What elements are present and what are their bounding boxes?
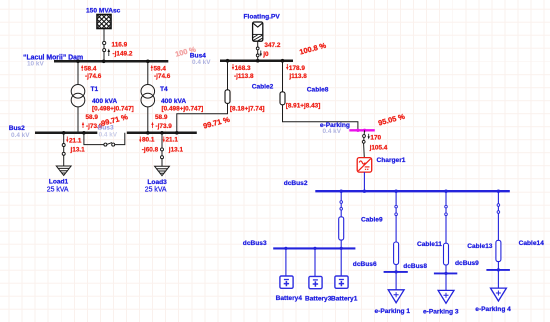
svg-text:T4: T4 bbox=[160, 86, 168, 93]
svg-text:Battery4: Battery4 bbox=[276, 295, 303, 302]
bus dcBus2 bbox=[284, 180, 510, 191]
cable Cable13 (feeder to dcBus9) bbox=[444, 191, 493, 273]
svg-text:-j149.2: -j149.2 bbox=[113, 50, 133, 57]
junction dots on dcBus2 bbox=[340, 190, 501, 193]
load e-Parking 4 bbox=[475, 270, 511, 313]
svg-text:116.9: 116.9 bbox=[112, 41, 128, 48]
junction dots on Bus3 bbox=[146, 131, 150, 135]
svg-text:10 kV: 10 kV bbox=[27, 61, 44, 68]
svg-text:dcBus6: dcBus6 bbox=[353, 261, 377, 268]
svg-text:dcBus3: dcBus3 bbox=[243, 240, 267, 247]
wire dam bus to T1 bbox=[77, 61, 79, 84]
bus "Lacul Morii" Dam bbox=[23, 54, 168, 67]
wire e-Parking bus to Charger1 bbox=[364, 130, 365, 157]
svg-text:25 kVA: 25 kVA bbox=[145, 187, 167, 194]
svg-text:347.2: 347.2 bbox=[264, 42, 280, 49]
junction dots on dcBus3 bbox=[284, 247, 343, 250]
wire T4 to Bus3 bbox=[147, 107, 149, 133]
wire grid to dam bus bbox=[103, 29, 105, 62]
svg-text:j13.1: j13.1 bbox=[70, 147, 86, 154]
value 178.9 j113.8 (Cable8) bbox=[286, 64, 307, 80]
value 170 j105.4 bbox=[368, 134, 388, 152]
external grid 150 MVAsc bbox=[86, 3, 121, 40]
svg-text:80.1: 80.1 bbox=[142, 137, 155, 144]
wire dam bus to T4 bbox=[147, 61, 149, 84]
svg-text:dcBus2: dcBus2 bbox=[284, 180, 308, 187]
switch circles on grid feeder bbox=[103, 41, 106, 44]
svg-text:Cable9: Cable9 bbox=[361, 217, 383, 224]
svg-text:[0.498+j0.747]: [0.498+j0.747] bbox=[162, 106, 204, 113]
wire Bus2 to Load1 bbox=[63, 133, 65, 166]
value 58.4 -j74.6 (T1 HV) bbox=[81, 65, 102, 80]
svg-text:58.4: 58.4 bbox=[84, 65, 97, 72]
svg-text:0.4 kV: 0.4 kV bbox=[99, 132, 118, 139]
switch circles Load3 feeder bbox=[161, 148, 164, 151]
cable Cable11 (feeder to dcBus8) bbox=[394, 191, 443, 272]
bus under Cable14 bbox=[486, 268, 510, 271]
svg-text:100.8 %: 100.8 % bbox=[298, 41, 327, 57]
value 347.2 j0 bbox=[260, 42, 281, 58]
bus dcBus3 bbox=[243, 240, 356, 248]
svg-text:Bus3: Bus3 bbox=[98, 125, 114, 132]
wire Charger1 to dcBus2 bbox=[363, 172, 365, 191]
svg-text:[0.498+j0.747]: [0.498+j0.747] bbox=[92, 106, 134, 113]
bus Bus3 bar bbox=[127, 132, 197, 135]
svg-text:58.9: 58.9 bbox=[86, 114, 99, 121]
cable Cable8 bbox=[280, 61, 358, 130]
svg-text:Battery3: Battery3 bbox=[305, 295, 332, 302]
load Load1 bbox=[47, 166, 71, 193]
bus dcBus8 bbox=[384, 263, 428, 274]
bus Bus4 bbox=[190, 53, 293, 66]
junction dots on dam bus bbox=[76, 60, 80, 64]
svg-text:168.3: 168.3 bbox=[235, 65, 251, 72]
svg-text:j113.8: j113.8 bbox=[288, 73, 307, 80]
svg-text:dcBus8: dcBus8 bbox=[403, 263, 427, 270]
svg-text:178.9: 178.9 bbox=[289, 65, 305, 72]
svg-text:e-Parking 3: e-Parking 3 bbox=[423, 309, 459, 316]
cable Cable2 bbox=[177, 61, 274, 133]
svg-text:Load3: Load3 bbox=[147, 179, 167, 186]
battery Battery4 bbox=[276, 248, 303, 301]
value 58.9 -j73.9 (T4 LV) bbox=[151, 114, 172, 130]
svg-text:[8.91+j8.43]: [8.91+j8.43] bbox=[286, 102, 321, 109]
junction dots on Bus4 bbox=[226, 59, 230, 63]
transformer T1 bbox=[71, 85, 134, 113]
value 168.3 -j113.8 (Cable2) bbox=[232, 64, 254, 80]
svg-text:170: 170 bbox=[370, 134, 381, 141]
svg-text:[8.18+j7.74]: [8.18+j7.74] bbox=[230, 106, 265, 113]
svg-text:99.71 %: 99.71 % bbox=[202, 115, 231, 131]
value 80.1 -j60.8 bbox=[139, 137, 158, 154]
svg-text:400 kVA: 400 kVA bbox=[92, 98, 117, 105]
load e-Parking 1 bbox=[375, 272, 411, 315]
svg-text:Cable11: Cable11 bbox=[417, 241, 442, 248]
svg-text:j105.4: j105.4 bbox=[369, 144, 388, 151]
svg-text:Battery1: Battery1 bbox=[331, 295, 358, 302]
svg-text:95.05 %: 95.05 % bbox=[377, 112, 406, 128]
svg-text:e-Parking 1: e-Parking 1 bbox=[375, 308, 411, 315]
svg-text:25 kVA: 25 kVA bbox=[47, 186, 69, 193]
svg-text:Load1: Load1 bbox=[49, 179, 69, 186]
svg-text:150 MVAsc: 150 MVAsc bbox=[86, 8, 121, 15]
svg-text:Floating.PV: Floating.PV bbox=[244, 14, 281, 21]
wire PV to Bus4 bbox=[257, 41, 259, 61]
svg-text:58.4: 58.4 bbox=[154, 65, 167, 72]
value 21.1 j13.1 (Load1) bbox=[66, 137, 85, 154]
switch circles PV feeder bbox=[256, 47, 259, 50]
svg-text:0.4 kV: 0.4 kV bbox=[11, 132, 30, 139]
PV generator Floating.PV bbox=[244, 14, 281, 42]
svg-text:0.4 kV: 0.4 kV bbox=[192, 59, 211, 66]
switch circles charger feeder bbox=[363, 135, 366, 138]
svg-text:Cable14: Cable14 bbox=[519, 240, 545, 247]
svg-text:dcBus9: dcBus9 bbox=[455, 260, 479, 267]
bus e-Parking (magenta) bbox=[320, 122, 375, 135]
battery Battery1 bbox=[331, 248, 358, 302]
switch circles Load1 feeder bbox=[62, 144, 65, 147]
cable Cable9 bbox=[339, 191, 383, 248]
svg-text:0.4 kV: 0.4 kV bbox=[323, 128, 342, 135]
svg-text:Cable13: Cable13 bbox=[467, 243, 493, 250]
svg-text:21.1: 21.1 bbox=[69, 138, 82, 145]
svg-text:-j113.8: -j113.8 bbox=[234, 73, 254, 80]
svg-text:400 kVA: 400 kVA bbox=[161, 98, 186, 105]
svg-text:Charger1: Charger1 bbox=[377, 157, 406, 164]
transformer T4 bbox=[141, 85, 203, 113]
svg-text:21.1: 21.1 bbox=[166, 137, 179, 144]
wire Bus3 to Load3 bbox=[161, 133, 163, 167]
svg-text:j0: j0 bbox=[262, 51, 269, 58]
svg-text:58.9: 58.9 bbox=[155, 114, 168, 121]
bus dcBus9 bbox=[434, 260, 479, 275]
svg-text:-j60.8: -j60.8 bbox=[142, 146, 159, 153]
svg-text:T1: T1 bbox=[91, 86, 99, 93]
wire T1 to Bus2 bbox=[77, 107, 79, 133]
node Bus3 (faint label) bbox=[98, 125, 118, 139]
junction dots on Bus2 bbox=[62, 131, 66, 135]
svg-text:-j74.6: -j74.6 bbox=[85, 73, 102, 80]
svg-text:Cable8: Cable8 bbox=[307, 87, 329, 94]
svg-text:j13.1: j13.1 bbox=[168, 146, 184, 153]
svg-text:Cable2: Cable2 bbox=[252, 83, 274, 90]
value label 116.9 -j149.2 with up arrow bbox=[108, 41, 133, 57]
cable Cable14 bbox=[496, 191, 544, 270]
value 58.9 -j73.9 (T1 LV) bbox=[82, 114, 103, 130]
svg-text:e-Parking 4: e-Parking 4 bbox=[475, 306, 511, 313]
load Load3 bbox=[145, 166, 170, 193]
svg-text:-j74.6: -j74.6 bbox=[154, 73, 171, 80]
value 58.4 -j74.6 (T4 HV) bbox=[151, 65, 171, 80]
value 21.1 j13.1 (Load3) bbox=[163, 137, 184, 154]
battery Battery3 bbox=[305, 248, 332, 302]
svg-text:-j73.9: -j73.9 bbox=[156, 123, 173, 130]
bus tie Bus2-Bus3 with open switch bbox=[84, 133, 125, 146]
converter Charger1 bbox=[357, 157, 406, 172]
bus Bus2 bbox=[9, 125, 98, 139]
load e-Parking 3 bbox=[423, 273, 459, 315]
